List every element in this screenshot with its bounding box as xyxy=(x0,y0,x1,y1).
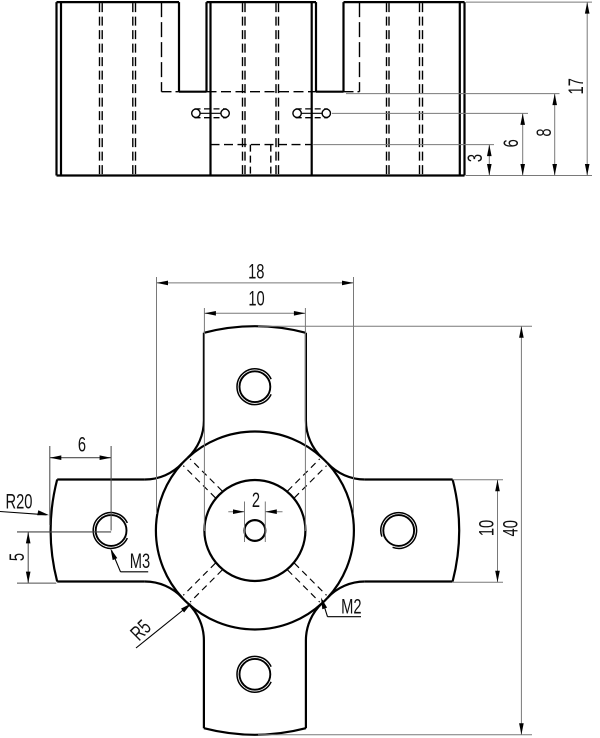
svg-text:M3: M3 xyxy=(130,550,150,573)
svg-text:6: 6 xyxy=(499,139,522,147)
svg-text:5: 5 xyxy=(5,553,28,561)
svg-text:3: 3 xyxy=(464,154,487,162)
svg-text:6: 6 xyxy=(78,433,86,456)
svg-text:40: 40 xyxy=(499,520,522,536)
svg-text:M2: M2 xyxy=(341,595,361,618)
svg-text:17: 17 xyxy=(565,78,588,94)
svg-text:R20: R20 xyxy=(6,490,33,513)
svg-text:8: 8 xyxy=(533,128,556,136)
svg-text:10: 10 xyxy=(475,520,498,536)
svg-text:R5: R5 xyxy=(126,615,156,645)
svg-text:10: 10 xyxy=(248,287,264,310)
svg-text:2: 2 xyxy=(252,488,260,511)
svg-text:18: 18 xyxy=(248,260,264,283)
